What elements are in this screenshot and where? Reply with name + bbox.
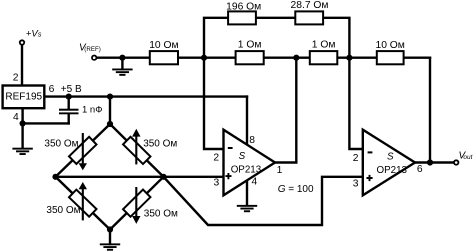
- wire feedback drop to output node: [429, 58, 431, 163]
- wire bridge bottom node to ground: [109, 230, 111, 245]
- wire pin 4 node to capacitor bottom: [23, 122, 69, 124]
- wire node C to U2 pin 2: [349, 58, 362, 149]
- wire U1 output pin 1 to node B: [275, 58, 296, 163]
- svg-text:(REF): (REF): [84, 46, 101, 53]
- resistor 28.7 Ом: [295, 11, 323, 24]
- arrow bottom-left resistor (up): [82, 189, 84, 220]
- svg-text:10 Ом: 10 Ом: [375, 40, 404, 51]
- wire +5V rail to bridge top: [109, 97, 111, 124]
- svg-text:+5 В: +5 В: [61, 84, 82, 95]
- arrow top-left resistor (down): [82, 133, 84, 163]
- svg-text:1: 1: [277, 165, 283, 176]
- wire V(REF) ground lead: [121, 58, 123, 69]
- svg-text:4: 4: [252, 177, 258, 188]
- wire bridge edge bottom-right: [110, 177, 164, 230]
- U1 minus input mark: [228, 147, 233, 149]
- wire +Vs to REF195 pin 2: [21, 43, 23, 87]
- junction dot capacitor top: [66, 94, 72, 100]
- bridge resistor body top-left 350 Ом: [69, 137, 96, 164]
- wire node A to U1 pin 2: [204, 58, 224, 149]
- bridge resistor body bottom-left 350 Ом: [69, 190, 97, 217]
- svg-text:6: 6: [417, 164, 423, 175]
- U2 minus input mark: [368, 151, 373, 153]
- svg-text:2: 2: [213, 152, 219, 163]
- ground (REF195 pin 4): [12, 148, 32, 155]
- svg-text:1 nФ: 1 nФ: [82, 105, 102, 116]
- svg-text:6: 6: [49, 84, 55, 95]
- junction dot bridge right: [160, 174, 166, 180]
- svg-text:1 Ом: 1 Ом: [312, 39, 336, 50]
- svg-text:S: S: [387, 152, 394, 163]
- junction dot bridge feed on +5V rail: [107, 94, 113, 100]
- svg-text:350 Ом: 350 Ом: [143, 139, 177, 150]
- svg-text:196 Ом: 196 Ом: [226, 2, 261, 13]
- svg-text:4: 4: [13, 112, 19, 123]
- svg-text:2: 2: [13, 73, 19, 84]
- op-amp U1 OP213: [224, 130, 276, 196]
- wire bridge left node to U1 pin 3: [56, 176, 224, 178]
- ground (bridge bottom): [100, 243, 120, 250]
- svg-text:1 Ом: 1 Ом: [238, 40, 262, 51]
- wire top branch with 196 Ом and 28.7 Ом: [204, 18, 349, 58]
- svg-text:G = 100: G = 100: [278, 184, 314, 195]
- svg-text:2: 2: [353, 153, 359, 164]
- wire REF195 pin 4 stub: [21, 107, 23, 123]
- svg-text:OP213: OP213: [231, 164, 262, 175]
- resistor 1 Ом (second): [310, 51, 338, 64]
- resistor 10 Ом (input left): [150, 51, 178, 64]
- wire pin 8 drop into U1: [246, 97, 248, 146]
- terminal +Vs: [20, 40, 24, 44]
- junction dot V(REF) ground tap: [119, 55, 125, 61]
- junction dot bridge top: [107, 121, 113, 127]
- svg-text:3: 3: [353, 178, 359, 189]
- junction dot node B: [293, 55, 299, 61]
- wire bridge edge bottom-left: [56, 177, 111, 230]
- wire U2 output pin 6 to Vout: [415, 161, 456, 163]
- junction dot node A: [201, 55, 207, 61]
- U1 plus input mark: [225, 173, 231, 179]
- U2 plus input mark: [367, 175, 373, 181]
- terminal Vout: [454, 160, 458, 164]
- svg-text:S: S: [239, 151, 246, 162]
- wire bridge edge top-right: [110, 124, 164, 177]
- svg-text:OP213: OP213: [377, 165, 408, 176]
- svg-text:+Vs: +Vs: [26, 29, 42, 40]
- svg-text:10 Ом: 10 Ом: [149, 40, 178, 51]
- terminal V(REF): [92, 56, 96, 60]
- wire U1 pin 4 to ground: [246, 178, 248, 205]
- junction dot bridge bottom: [107, 226, 113, 232]
- capacitor C1 plate bottom: [59, 112, 79, 114]
- svg-text:350 Ом: 350 Ом: [144, 209, 178, 220]
- ground (V(REF)): [112, 69, 132, 76]
- capacitor C1 plate top: [59, 109, 79, 111]
- svg-text:350 Ом: 350 Ом: [44, 139, 78, 150]
- resistor 1 Ом (first): [236, 51, 264, 64]
- wire capacitor C1 top lead: [67, 97, 69, 109]
- bridge resistor body top-right 350 Ом: [123, 137, 150, 164]
- svg-text:3: 3: [214, 178, 220, 189]
- resistor 10 Ом (right feedback): [377, 51, 404, 64]
- resistor 196 Ом: [228, 11, 256, 24]
- wire bridge edge top-left: [56, 124, 111, 177]
- svg-text:REF195: REF195: [5, 92, 42, 103]
- svg-text:out: out: [463, 154, 473, 161]
- junction dot REF195 pin 4 node: [20, 120, 26, 126]
- junction dot output node: [427, 159, 433, 165]
- arrow top-right resistor (up): [135, 136, 137, 164]
- wire capacitor C1 bottom lead: [67, 114, 69, 123]
- svg-text:350 Ом: 350 Ом: [46, 205, 80, 216]
- wire pin 4 node to ground: [21, 123, 23, 148]
- op-amp U2 OP213: [363, 130, 415, 196]
- wire bridge right node to U2 pin 3: [164, 177, 363, 225]
- bridge resistor body bottom-right 350 Ом: [123, 190, 150, 217]
- svg-text:8: 8: [249, 135, 255, 146]
- wire main input line V(REF) to feedback corner: [94, 57, 430, 59]
- svg-text:28.7 Ом: 28.7 Ом: [291, 0, 329, 11]
- ground (U1 pin 4): [237, 205, 257, 212]
- voltage reference REF195: [3, 86, 45, 109]
- junction dot bridge left: [52, 174, 58, 180]
- arrow bottom-right resistor (down): [135, 187, 137, 216]
- junction dot node C: [346, 55, 352, 61]
- wire +5V rail from REF195 pin 6 to op-amp U1 pin 8 drop: [44, 95, 247, 97]
